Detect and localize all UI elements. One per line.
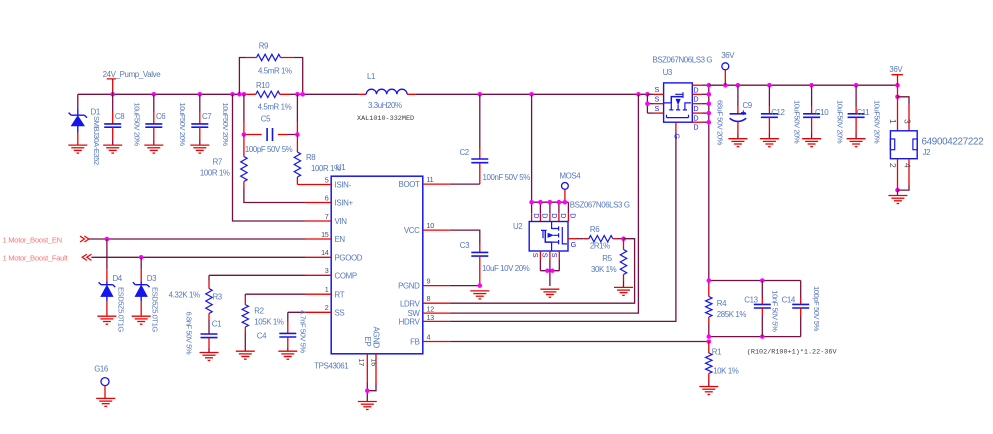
resistor R2 105K 1% on RT [245, 293, 305, 295]
diode D4 ESD5Z5.0T1G [106, 239, 108, 269]
capacitor C11 10uF50V 20% [855, 85, 857, 106]
svg-text:105K 1%: 105K 1% [254, 318, 284, 327]
svg-text:D: D [693, 113, 698, 122]
testpoint 36V [722, 63, 729, 70]
svg-text:6: 6 [325, 193, 329, 202]
capacitor C2 100nF 50V 5% (bootstrap) [479, 94, 481, 148]
svg-text:MOS4: MOS4 [560, 172, 582, 181]
capacitor C14 100pF 50V 5% [800, 281, 802, 299]
svg-text:10uF50V 20%: 10uF50V 20% [133, 103, 142, 147]
transistor U3 BSZ067N06LS3 G [664, 83, 693, 122]
svg-text:100nF 50V 5%: 100nF 50V 5% [483, 173, 531, 182]
svg-text:L1: L1 [367, 72, 375, 81]
svg-text:10K 1%: 10K 1% [713, 367, 739, 376]
svg-text:BSZ067N06LS3 G: BSZ067N06LS3 G [570, 201, 630, 210]
wire PGND to ground [450, 285, 480, 287]
svg-text:D: D [559, 213, 568, 218]
svg-text:S: S [655, 104, 660, 113]
svg-text:C10: C10 [815, 108, 829, 117]
svg-text:1 Motor_Boost_Fault: 1 Motor_Boost_Fault [3, 253, 69, 262]
svg-text:C7: C7 [202, 112, 211, 121]
wire HDRV to U3 gate [450, 131, 676, 321]
capacitor C1 6.8nF 50V 5% [201, 334, 218, 338]
svg-text:(R102/R100+1)*1.22-36V: (R102/R100+1)*1.22-36V [747, 349, 838, 357]
svg-text:BOOT: BOOT [399, 180, 420, 189]
svg-text:C5: C5 [261, 115, 271, 124]
net label 36V at J2 [892, 75, 903, 86]
inductor L1 3.3uH XAL1010-332MED [359, 93, 416, 95]
svg-text:2: 2 [325, 303, 329, 312]
svg-text:ESD5Z5.0T1G: ESD5Z5.0T1G [116, 287, 125, 332]
svg-text:EP: EP [363, 337, 372, 347]
wire LDRV to R6 junction [450, 239, 635, 304]
capacitor C5 100pF 50V 5% [244, 94, 298, 121]
svg-text:C4: C4 [257, 332, 267, 341]
capacitor C12 10uF50V 20% [768, 85, 770, 106]
svg-text:C1: C1 [212, 320, 221, 329]
capacitor C13 10nF 50V 5% [761, 281, 763, 299]
svg-text:1: 1 [325, 285, 329, 294]
svg-text:S: S [655, 85, 660, 94]
wire U2 drain bus [532, 201, 569, 203]
svg-text:4.5mR 1%: 4.5mR 1% [258, 67, 292, 76]
wire SW node rail [416, 93, 648, 95]
svg-text:5: 5 [325, 175, 329, 184]
wire U3 drain bus to feedback divider [708, 85, 710, 280]
svg-text:4.32K 1%: 4.32K 1% [169, 290, 200, 299]
resistor R5 30K 1% [623, 239, 625, 250]
svg-text:4: 4 [427, 332, 431, 341]
svg-text:10: 10 [427, 221, 435, 230]
wire PGOOD net [91, 256, 305, 258]
svg-text:D: D [693, 104, 698, 113]
testpoint G16 [101, 378, 109, 386]
port Motor_Boost_Fault [82, 254, 91, 260]
wire SW sense riser [450, 94, 639, 313]
svg-text:R6: R6 [590, 225, 600, 234]
svg-text:R5: R5 [602, 254, 612, 263]
svg-text:100pF 50V 5%: 100pF 50V 5% [245, 145, 293, 154]
svg-text:10uF 10V 20%: 10uF 10V 20% [482, 264, 530, 273]
resistor R9 4.5mR 1% [239, 58, 302, 95]
svg-text:TPS43061: TPS43061 [314, 361, 348, 370]
svg-text:10uF50V 20%: 10uF50V 20% [221, 103, 230, 147]
svg-text:R7: R7 [213, 158, 222, 167]
svg-text:S: S [540, 253, 549, 258]
resistor R10 4.5mR 1% [246, 93, 289, 95]
capacitor C7 10uF50V 20% [199, 94, 201, 111]
svg-text:COMP: COMP [335, 271, 357, 280]
svg-text:8: 8 [427, 294, 431, 303]
wire 24V input rail [78, 93, 359, 95]
svg-text:R9: R9 [259, 42, 269, 51]
svg-text:4.7nF 50V 5%: 4.7nF 50V 5% [299, 310, 308, 353]
wire VIN riser [233, 94, 306, 221]
U1 bottom pins EP/AGND to ground [367, 354, 376, 383]
connector J2 649004227222 [895, 95, 900, 100]
svg-text:SMBJ30A-E352: SMBJ30A-E352 [92, 116, 101, 165]
svg-text:D: D [693, 85, 698, 94]
svg-text:C8: C8 [115, 112, 125, 121]
transistor U2 BSZ067N06LS3 G [529, 222, 568, 252]
diode D3 ESD5Z5.0T1G [140, 257, 142, 269]
svg-text:S: S [550, 253, 559, 258]
capacitor C8 10uF50V 20% [112, 94, 114, 111]
svg-text:R4: R4 [717, 299, 727, 308]
svg-text:100R 1%: 100R 1% [200, 169, 230, 178]
svg-text:C2: C2 [460, 148, 469, 157]
svg-text:649004227222: 649004227222 [922, 136, 984, 147]
resistor R7 100R 1% [243, 135, 245, 157]
svg-text:15: 15 [321, 230, 329, 239]
svg-text:J2: J2 [923, 148, 931, 157]
wire FB to divider [450, 341, 709, 343]
svg-text:D: D [541, 213, 550, 218]
svg-text:10nF 50V 5%: 10nF 50V 5% [771, 290, 780, 332]
svg-text:D: D [569, 213, 578, 218]
svg-text:2R1%: 2R1% [590, 242, 610, 251]
svg-text:D3: D3 [147, 274, 157, 283]
svg-text:D4: D4 [113, 274, 123, 283]
svg-text:10uF50V 20%: 10uF50V 20% [873, 100, 882, 144]
svg-text:BSZ067N06LS3 G: BSZ067N06LS3 G [652, 56, 712, 65]
svg-text:30K 1%: 30K 1% [591, 265, 617, 274]
svg-text:C14: C14 [782, 296, 796, 305]
svg-text:1: 1 [888, 119, 898, 124]
op-amp U1 TPS43061 controller [331, 176, 423, 354]
capacitor C10 10uF50V 20% [811, 85, 813, 106]
svg-text:4: 4 [902, 163, 912, 168]
wire EN net [89, 238, 305, 240]
svg-text:VCC: VCC [404, 226, 420, 235]
resistor R3 4.32K 1% on COMP [209, 274, 305, 276]
svg-text:285K 1%: 285K 1% [717, 310, 747, 319]
svg-text:10uF50V 20%: 10uF50V 20% [178, 103, 187, 147]
svg-text:6.8nF 50V 5%: 6.8nF 50V 5% [185, 312, 194, 355]
svg-text:R2: R2 [254, 307, 263, 316]
svg-text:36V: 36V [721, 51, 735, 60]
svg-text:10uF50V 20%: 10uF50V 20% [835, 100, 844, 144]
svg-text:3: 3 [325, 266, 329, 275]
capacitor C6 10uF50V 20% [153, 94, 155, 111]
wire 36V output rail [709, 84, 898, 86]
svg-text:17: 17 [357, 359, 366, 367]
svg-text:D: D [550, 213, 559, 218]
svg-text:16: 16 [370, 359, 379, 367]
svg-text:R1: R1 [712, 348, 721, 357]
svg-text:FB: FB [410, 338, 419, 347]
resistor R1 10K 1% [708, 342, 710, 354]
svg-text:R8: R8 [306, 153, 316, 162]
svg-text:EN: EN [335, 235, 346, 244]
svg-text:S: S [655, 95, 660, 104]
svg-text:C11: C11 [857, 108, 870, 117]
svg-text:G: G [571, 240, 577, 249]
capacitor C9 68uF 50V 20% electrolytic [737, 85, 739, 106]
svg-text:SS: SS [335, 308, 345, 317]
testpoint MOS4 [562, 183, 569, 190]
diode D1 SMBJ30A-E352 [77, 94, 79, 108]
svg-text:RT: RT [335, 290, 345, 299]
svg-text:7: 7 [325, 212, 329, 221]
svg-text:U1: U1 [336, 163, 345, 172]
svg-text:PGND: PGND [398, 282, 420, 291]
capacitor C4 4.7nF 50V 5% on SS [288, 311, 305, 313]
svg-text:13: 13 [427, 313, 435, 322]
resistor R4 285K 1% [708, 281, 710, 286]
svg-text:36V: 36V [889, 65, 903, 74]
svg-text:U3: U3 [663, 68, 673, 77]
svg-text:C9: C9 [743, 101, 753, 110]
wire feedforward loop [709, 281, 801, 337]
net label 24V_Pump_Valve [107, 79, 116, 90]
svg-text:LDRV: LDRV [400, 299, 421, 308]
resistor R6 2R 1% [583, 238, 589, 240]
svg-text:4.5mR 1%: 4.5mR 1% [258, 103, 292, 112]
U2 source pins to ground [540, 251, 559, 260]
svg-text:1 Motor_Boost_EN: 1 Motor_Boost_EN [3, 236, 62, 245]
wire BOOT to C2 [450, 183, 480, 185]
svg-text:14: 14 [321, 248, 329, 257]
svg-text:11: 11 [427, 175, 434, 184]
svg-text:ISIN+: ISIN+ [335, 199, 354, 208]
svg-text:HDRV: HDRV [399, 318, 421, 327]
svg-text:68uF 50V 20%: 68uF 50V 20% [715, 100, 724, 146]
svg-text:XAL1010-332MED: XAL1010-332MED [357, 115, 414, 123]
svg-text:PGOOD: PGOOD [335, 253, 363, 262]
capacitor C3 10uF 10V 20% [450, 230, 480, 243]
svg-text:C6: C6 [156, 112, 166, 121]
svg-text:G: G [672, 134, 681, 140]
svg-text:R3: R3 [213, 293, 223, 302]
svg-text:2: 2 [888, 163, 898, 168]
wire SW to U2 drains [531, 94, 533, 202]
U2 gate pin G [568, 238, 578, 240]
svg-text:AGND: AGND [371, 327, 380, 349]
svg-text:9: 9 [427, 276, 431, 285]
svg-text:D: D [693, 122, 698, 131]
port Motor_Boost_EN [80, 236, 89, 242]
svg-text:ISIN-: ISIN- [335, 181, 352, 190]
svg-text:VIN: VIN [335, 217, 348, 226]
svg-text:100pF 50V 5%: 100pF 50V 5% [812, 286, 821, 332]
svg-text:C3: C3 [460, 241, 470, 250]
resistor R8 100R 1% [296, 135, 298, 153]
svg-text:C12: C12 [771, 108, 784, 117]
svg-text:24V_Pump_Valve: 24V_Pump_Valve [103, 70, 162, 79]
svg-text:U2: U2 [513, 222, 522, 231]
svg-text:3: 3 [902, 119, 912, 124]
svg-text:S: S [531, 253, 540, 258]
svg-text:ESD5Z5.0T1G: ESD5Z5.0T1G [151, 287, 160, 332]
svg-text:10uF50V 20%: 10uF50V 20% [792, 100, 801, 144]
svg-text:C13: C13 [744, 296, 758, 305]
svg-text:R10: R10 [256, 81, 270, 90]
svg-text:3.3uH20%: 3.3uH20% [368, 101, 402, 110]
svg-text:G16: G16 [94, 365, 109, 374]
svg-text:D: D [532, 213, 541, 218]
svg-text:D: D [693, 95, 698, 104]
